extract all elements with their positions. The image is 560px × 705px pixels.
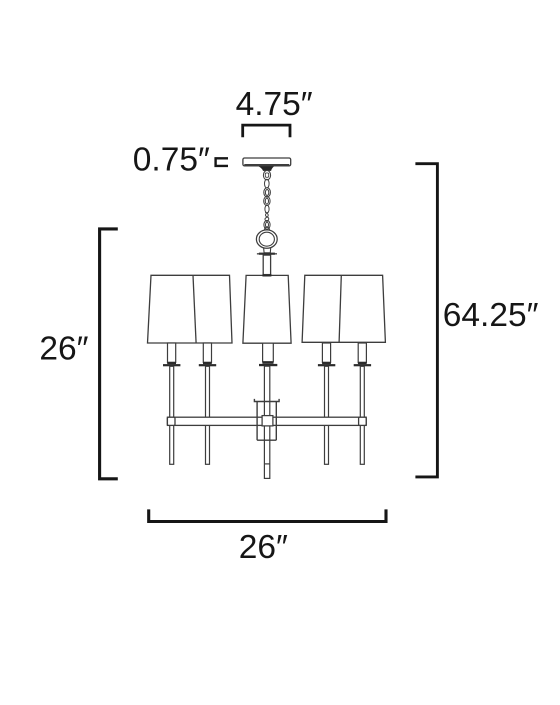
rod center joint tick — [264, 463, 269, 465]
ring neck — [264, 247, 271, 253]
dimension bracket right 64.25 — [415, 164, 437, 477]
column flange — [257, 253, 277, 255]
bar block left — [167, 417, 175, 425]
candle 2 sleeve — [199, 343, 216, 366]
loop ring — [256, 230, 277, 248]
candle 4 sleeve — [318, 343, 335, 366]
svg-text:64.25″: 64.25″ — [443, 297, 539, 334]
rod center — [264, 366, 269, 478]
mount cone — [259, 166, 274, 171]
dimension bracket top 4.75 — [243, 125, 290, 137]
column tube — [263, 255, 270, 276]
candle 3 sleeve center — [259, 343, 277, 366]
rod 1 — [170, 366, 174, 464]
bar block right — [359, 417, 367, 425]
chain link 5 — [265, 205, 269, 213]
candle 5 sleeve — [354, 343, 371, 366]
shade center — [243, 275, 291, 343]
chain link 8 — [264, 227, 269, 235]
svg-text:26″: 26″ — [239, 529, 288, 566]
chain link 4 — [264, 196, 270, 205]
center shade top joint — [263, 274, 272, 276]
chain link 1 — [263, 171, 270, 180]
svg-text:26″: 26″ — [39, 330, 88, 367]
rod 4 — [325, 366, 329, 464]
dimension bracket left 26 — [100, 229, 118, 479]
shade left pair — [148, 275, 233, 343]
svg-text:4.75″: 4.75″ — [236, 86, 313, 123]
chain link 2 — [265, 179, 270, 188]
svg-text:0.75″: 0.75″ — [133, 141, 210, 178]
center bracket — [254, 399, 279, 440]
canopy — [243, 158, 291, 166]
shade right pair — [302, 275, 385, 342]
chain link 6 twisted — [265, 212, 269, 221]
rod 2 — [206, 366, 210, 464]
chain link 7 — [264, 220, 270, 229]
bar block center — [262, 416, 273, 426]
dimension bracket small 0.75 — [216, 158, 228, 166]
dimension bracket bottom 26 — [149, 509, 386, 521]
candle 1 sleeve — [163, 343, 180, 366]
rod 5 — [360, 366, 364, 464]
arm bar — [167, 417, 366, 425]
chain link 3 — [264, 188, 271, 197]
